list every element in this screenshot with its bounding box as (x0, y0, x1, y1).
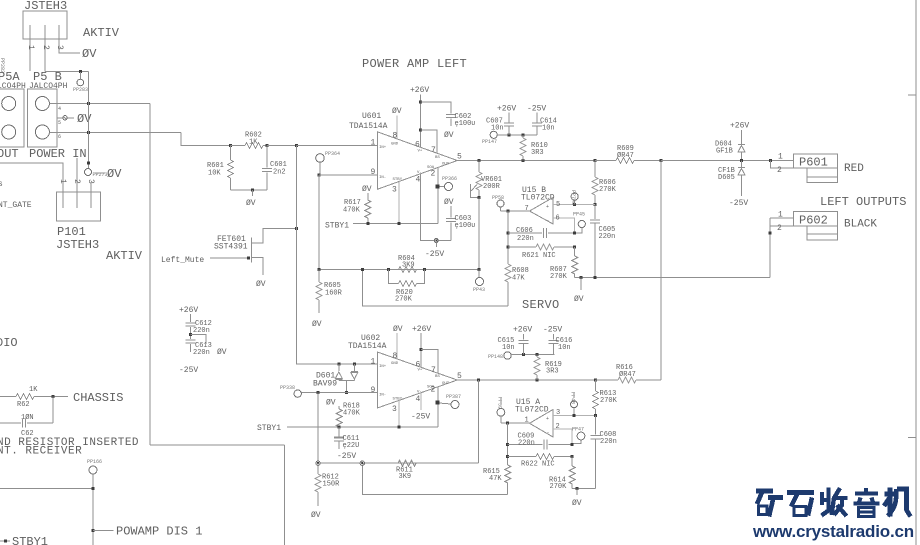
junction pin6 row (87, 131, 90, 134)
wire VR601 to feedback row (478, 198, 480, 270)
capacitor C603 100u (450, 223, 452, 241)
test point PP746 (573, 203, 576, 206)
U602 pin2 wire down (437, 387, 439, 427)
P601 sub body (807, 168, 838, 182)
junction R622 right (571, 455, 574, 458)
svg-text:OUT: OUT (442, 382, 450, 386)
svg-text:PP148: PP148 (488, 354, 503, 360)
svg-text:STBY1: STBY1 (12, 535, 48, 545)
svg-text:10n: 10n (491, 125, 504, 133)
svg-text:AKTIV: AKTIV (106, 249, 143, 263)
svg-text:IN+: IN+ (379, 365, 387, 369)
svg-text:C606: C606 (516, 227, 533, 235)
svg-text:+: + (546, 416, 549, 422)
U15B pin6 wire (553, 218, 575, 233)
U601 pin8 wire (396, 116, 398, 140)
svg-text:200R: 200R (483, 183, 501, 191)
svg-text:5: 5 (556, 201, 560, 209)
capacitor C606 220n (508, 232, 542, 234)
svg-text:TL072CD: TL072CD (515, 406, 549, 415)
svg-text:220n: 220n (517, 235, 534, 243)
connector P601 body (794, 154, 838, 168)
P602 pin2 wire (769, 218, 771, 278)
junction D601 to IN- (345, 391, 348, 394)
wire pin2 to PP283 corner (45, 70, 89, 72)
resistor R613 270K (595, 380, 597, 391)
svg-text:2: 2 (556, 423, 560, 431)
svg-text:5: 5 (58, 120, 61, 126)
wire feedback left vertical (507, 211, 509, 264)
svg-text:6: 6 (416, 361, 421, 370)
wire R601/C601 bottom (231, 189, 267, 191)
svg-text:+26V: +26V (730, 122, 749, 131)
svg-text:ØV: ØV (217, 348, 227, 357)
wire Left_Mute to gate (210, 257, 250, 259)
svg-text:2: 2 (431, 170, 436, 179)
svg-text:2: 2 (777, 224, 782, 233)
resistor R616 0R47 (596, 379, 618, 381)
capacitor C609 220n (508, 444, 543, 446)
junction FET drain on signal line (295, 227, 298, 230)
svg-text:1K: 1K (249, 139, 258, 147)
svg-text:PP746: PP746 (570, 190, 576, 205)
svg-text:BS: BS (435, 375, 440, 379)
svg-text:CHASSIS: CHASSIS (73, 391, 123, 405)
svg-text:JALCO4PH: JALCO4PH (29, 82, 68, 91)
junction signal node (295, 144, 298, 147)
P601 pin2 wire (770, 161, 807, 169)
junction pin4 row (87, 102, 90, 105)
svg-text:2: 2 (41, 45, 50, 50)
resistor R619 3R3 (536, 354, 538, 357)
svg-text:-25V: -25V (527, 105, 546, 114)
wire PP166 down (92, 474, 94, 545)
junction R619 top (536, 353, 539, 356)
svg-text:+26V: +26V (410, 86, 429, 95)
junction BS branch (419, 129, 422, 132)
svg-text:PP338: PP338 (280, 385, 295, 391)
svg-text:IN-: IN- (379, 394, 386, 398)
junction PP166/horizontal (92, 487, 95, 490)
U602 pin8 wire (396, 333, 398, 359)
connector JSTEH3 body (23, 11, 67, 39)
junction pin3 STBY (398, 426, 401, 429)
svg-text:3: 3 (86, 179, 95, 184)
svg-text:TDA1514A: TDA1514A (348, 342, 387, 351)
JSTEH3 pin 3 wire (59, 25, 80, 53)
junction clamp node (740, 159, 743, 162)
junction R621 right (573, 246, 576, 249)
junction bus/R611 branch (477, 379, 480, 382)
svg-text:ØV: ØV (82, 47, 97, 61)
svg-text:PP387: PP387 (446, 394, 461, 400)
svg-text:R622 NIC: R622 NIC (521, 461, 555, 469)
resistor R608 47K (505, 264, 511, 282)
svg-text:47K: 47K (512, 275, 525, 283)
svg-text:150R: 150R (323, 481, 341, 489)
svg-text:BAV99: BAV99 (313, 380, 337, 389)
svg-text:PP48: PP48 (570, 392, 576, 404)
wire mid node to 0V (191, 334, 207, 344)
wire PP364 to IN- node (319, 162, 321, 175)
svg-text:PP45: PP45 (573, 212, 585, 218)
svg-text:1: 1 (371, 139, 376, 148)
FET601 source lead (251, 258, 263, 276)
wire lower output to node (660, 161, 662, 381)
wire BS jumper pin7 (421, 130, 437, 153)
wire bottom route down (284, 445, 286, 545)
svg-text:-25V: -25V (729, 199, 748, 208)
junction IN- left (317, 391, 320, 394)
svg-text:220n: 220n (600, 438, 617, 446)
U602 pin4 wire (420, 393, 422, 410)
junction on pin2 wire (79, 70, 82, 73)
wire -25V stub (435, 243, 437, 248)
svg-text:D605: D605 (718, 174, 735, 182)
svg-text:220n: 220n (193, 349, 210, 357)
junction C605 bottom (594, 276, 597, 279)
U15A pin3 wire (553, 414, 596, 416)
resistor R614 270K (571, 457, 573, 467)
svg-text:R62: R62 (17, 401, 30, 409)
resistor R602 1K (231, 145, 245, 147)
svg-text:270K: 270K (600, 397, 618, 405)
junction R620 right (423, 268, 426, 271)
wire +26V to pin6 (420, 333, 422, 368)
svg-text:V-: V- (417, 171, 422, 175)
junction VR601 wiper (478, 196, 481, 199)
junction R62/C62 (51, 395, 54, 398)
svg-text:NT_GATE: NT_GATE (0, 201, 32, 210)
svg-text:470K: 470K (343, 207, 361, 215)
junction C606 right (573, 232, 576, 235)
svg-text:10K: 10K (208, 170, 221, 178)
svg-text:POWER AMP LEFT: POWER AMP LEFT (362, 57, 467, 71)
svg-text:3: 3 (392, 405, 397, 414)
wire R611 row (318, 462, 479, 464)
svg-text:2n2: 2n2 (273, 169, 286, 177)
junction ground stub (251, 189, 254, 192)
junction 0V stub lower (576, 487, 579, 490)
P101 pin3 wire (90, 183, 92, 208)
svg-text:10n: 10n (558, 344, 571, 352)
svg-text:7: 7 (431, 366, 436, 375)
test point PP273 (88, 165, 90, 169)
wire R614/C608 bottom tie (572, 487, 595, 489)
svg-text:270K: 270K (599, 186, 617, 194)
wire feedback row (319, 269, 479, 271)
junction IN- node (318, 174, 321, 177)
svg-text:-25V: -25V (543, 326, 562, 335)
svg-text:STBY1: STBY1 (325, 222, 349, 231)
svg-text:2: 2 (72, 179, 81, 184)
junction row right (478, 268, 481, 271)
op-amp U601 triangle (377, 132, 457, 190)
junction R613 top (594, 379, 597, 382)
watermark logo shi (787, 493, 814, 516)
connector P5B body (28, 89, 58, 147)
watermark logo yin (854, 488, 880, 517)
op-amp U602 triangle (377, 352, 457, 408)
svg-text:-25V: -25V (337, 452, 356, 461)
svg-text:STBY: STBY (393, 178, 403, 182)
svg-text:8: 8 (393, 352, 398, 361)
junction pin3/STBY1 (398, 222, 401, 225)
junction feedback left lower (506, 422, 509, 425)
svg-text:PP366: PP366 (442, 176, 457, 182)
junction C602 branch (419, 101, 422, 104)
U602 interior pin names (379, 362, 450, 402)
svg-text:1: 1 (26, 45, 35, 50)
svg-text:GND: GND (391, 362, 399, 366)
svg-text:PP147: PP147 (482, 139, 497, 145)
wire output node to D604 (661, 160, 794, 162)
wire IN- to pin9 (319, 174, 377, 176)
test point PP283 (79, 72, 81, 79)
diode D605 GF1B (741, 161, 743, 168)
svg-text:DIO: DIO (0, 336, 18, 350)
net STBY1 bottom left (0, 540, 10, 542)
svg-text:+: + (546, 204, 549, 210)
capacitor C611 22u (338, 427, 340, 437)
junction R621 left (507, 246, 510, 249)
U601 pin3 wire (398, 182, 400, 224)
svg-text:GND: GND (391, 143, 399, 147)
capacitor C602 100u (421, 102, 452, 114)
junction C609 right (571, 443, 574, 446)
svg-text:PP282: PP282 (0, 58, 5, 73)
connector P5A body (0, 89, 24, 147)
test point PP48 (571, 401, 578, 408)
svg-text:www.crystalradio.cn: www.crystalradio.cn (752, 522, 914, 541)
test point PP387 (435, 401, 439, 405)
junction R601 top (229, 144, 232, 147)
wire bus branch down to R611 row (478, 380, 480, 463)
svg-text:ȩ22U: ȩ22U (343, 442, 360, 450)
sheet border right (915, 0, 917, 545)
svg-text:2: 2 (777, 166, 782, 175)
junction VR601 (478, 159, 481, 162)
wire POWAMP DIS stub (93, 530, 114, 532)
junction POWAMP DIS stub (92, 529, 95, 532)
wire to node x297 (267, 145, 297, 147)
svg-text:TDA1514A: TDA1514A (349, 122, 388, 131)
svg-text:-25V: -25V (425, 250, 444, 259)
svg-text:3: 3 (55, 45, 64, 50)
wire feedback return lower (362, 463, 507, 494)
wire supply cap row lower (517, 353, 554, 355)
svg-text:470K: 470K (343, 410, 361, 418)
svg-text:3: 3 (556, 409, 560, 417)
capacitor C608 220n (595, 415, 597, 434)
wire horizontal to PP166 node (0, 488, 93, 490)
U15B input polarity (546, 204, 550, 224)
junction PP48 node (573, 414, 576, 417)
resistor R611 3K9 (398, 460, 416, 466)
svg-text:1: 1 (58, 179, 67, 184)
svg-text:1: 1 (371, 358, 376, 367)
junction R619 bottom (536, 379, 539, 382)
resistor R604 3K9 (399, 267, 417, 273)
op-amp U15A triangle (530, 410, 554, 438)
svg-text:3: 3 (392, 186, 397, 195)
junction output node (659, 159, 662, 162)
svg-text:ØV: ØV (444, 131, 454, 140)
U601 pin2 wire down (437, 167, 439, 223)
svg-text:ØV: ØV (246, 199, 256, 208)
svg-text:JSTEH3: JSTEH3 (56, 238, 99, 252)
svg-text:NT. RECEIVER: NT. RECEIVER (0, 446, 82, 458)
resistor R606 270K (594, 161, 596, 178)
svg-text:AKTIV: AKTIV (83, 26, 120, 40)
svg-text:4: 4 (416, 176, 421, 185)
wire row1 corner down long vertical (149, 104, 151, 446)
watermark logo ji (884, 488, 911, 517)
FET601 gate bar (250, 238, 252, 263)
svg-text:10n: 10n (502, 344, 515, 352)
svg-text:ØV: ØV (326, 399, 336, 408)
svg-text:PP59: PP59 (497, 397, 503, 409)
wire servo 0V rail (575, 277, 770, 279)
svg-text:270K: 270K (550, 483, 568, 491)
wire supply cap row (497, 134, 537, 136)
border tick top (908, 94, 916, 96)
svg-text:SERVO: SERVO (522, 298, 560, 312)
svg-text:220n: 220n (599, 233, 616, 241)
svg-text:+26V: +26V (179, 306, 198, 315)
wire node to U601 pin1 (297, 145, 378, 147)
watermark logo shou (822, 488, 848, 517)
wire signal vertical to U602 (297, 146, 378, 365)
wire chassis branch down (52, 397, 54, 424)
resistor R601 10K (230, 146, 232, 161)
svg-text:ØV: ØV (393, 325, 403, 334)
U601 pin4 route to -25V rail (421, 174, 452, 241)
svg-text:STBY1: STBY1 (257, 424, 281, 433)
junction C612/C613 (189, 333, 192, 336)
svg-text:ØV: ØV (256, 280, 266, 289)
svg-text:6: 6 (58, 134, 61, 140)
svg-text:IN-: IN- (379, 176, 386, 180)
svg-text:47K: 47K (489, 475, 502, 483)
U15A pin2 wire (553, 429, 572, 444)
resistor R607 270K (574, 247, 576, 256)
svg-text:ØV: ØV (107, 167, 122, 181)
resistor R612 150R (317, 463, 319, 474)
junction 0V stub (579, 276, 582, 279)
svg-text:160R: 160R (325, 290, 343, 298)
svg-text:220n: 220n (518, 440, 535, 448)
junction feedback left (507, 210, 510, 213)
svg-text:P601: P601 (799, 156, 828, 170)
svg-text:PP166: PP166 (87, 459, 102, 465)
svg-text:ØV: ØV (444, 198, 454, 207)
test point PP364 (316, 154, 325, 163)
svg-text:+26V: +26V (513, 326, 532, 335)
capacitor C613 220n (186, 340, 196, 343)
U15A input polarity (546, 416, 550, 436)
svg-text:1ØN: 1ØN (21, 413, 34, 422)
svg-text:PP43: PP43 (473, 287, 485, 293)
svg-text:ȩ100ʋ: ȩ100ʋ (455, 120, 476, 128)
svg-text:8: 8 (393, 132, 398, 141)
svg-text:P101: P101 (57, 225, 86, 239)
junction R611 row left (316, 461, 320, 465)
svg-text:270K: 270K (395, 296, 413, 304)
junction C601 top (266, 144, 269, 147)
svg-text:LCO4PH: LCO4PH (0, 82, 26, 91)
svg-text:ØR47: ØR47 (617, 151, 634, 160)
svg-text:POWER IN: POWER IN (29, 147, 87, 161)
svg-text:1K: 1K (29, 386, 38, 394)
test point PP366 (435, 185, 439, 189)
wire row pin4 (49, 103, 150, 105)
junction feedback tie lower (360, 461, 364, 465)
svg-text:3K9: 3K9 (402, 262, 415, 270)
junction R606 (594, 159, 597, 162)
svg-text:RED: RED (844, 163, 864, 175)
junction R617/STBY1 (366, 222, 369, 225)
svg-text:BLACK: BLACK (844, 219, 877, 231)
resistor R615 47K (505, 465, 511, 483)
wire input step (181, 133, 231, 146)
capacitor C62 10N (0, 422, 21, 424)
P602 pin1 wire (770, 217, 794, 219)
svg-text:3R3: 3R3 (531, 149, 544, 157)
P101 pin numbers (58, 179, 95, 184)
wire U15B output (501, 210, 530, 212)
svg-text:+26V: +26V (497, 105, 516, 114)
FET601 drain lead (251, 228, 296, 243)
wire vertical PP283 to PP273 (88, 71, 90, 163)
svg-text:-25V: -25V (179, 366, 198, 375)
junction C609 left (506, 443, 509, 446)
svg-text:+26V: +26V (412, 325, 431, 334)
junction P602 (769, 232, 772, 235)
wire +26V to pin6 (420, 95, 422, 148)
svg-text:PP364: PP364 (325, 151, 340, 157)
wire U15A output (501, 422, 530, 424)
svg-text:9: 9 (371, 386, 376, 395)
svg-text:ØV: ØV (311, 511, 321, 520)
svg-text:6: 6 (415, 141, 420, 150)
svg-text:4: 4 (416, 395, 421, 404)
connector P101 body (57, 192, 101, 221)
junction P601 tie (769, 159, 772, 162)
JSTEH3 pin numbers 1 2 3 (26, 45, 64, 50)
resistor R609 0R47 (595, 160, 616, 162)
resistor R621 NIC (508, 246, 536, 248)
svg-text:7: 7 (525, 205, 529, 213)
svg-text:ØV: ØV (572, 499, 582, 508)
wire servo return to feedback row (362, 270, 508, 307)
border tick bottom (908, 437, 916, 439)
junction C607 (508, 133, 511, 136)
svg-text:ȩ100ʋ: ȩ100ʋ (455, 222, 476, 230)
wire row pin6 (49, 132, 181, 134)
capacitor C601 2n2 (266, 146, 268, 168)
resistor R62 1K (0, 396, 16, 398)
junction -25V node (434, 239, 438, 243)
svg-text:STBY: STBY (393, 398, 403, 402)
svg-text:ØR47: ØR47 (619, 370, 636, 379)
svg-text:POWAMP DIS 1: POWAMP DIS 1 (116, 525, 202, 539)
svg-text:4: 4 (58, 106, 61, 112)
wire IN- row (307, 392, 377, 394)
junction C606 left (507, 232, 510, 235)
JSTEH3 pin 1 wire (29, 25, 31, 71)
resistor R605 160R (318, 270, 320, 283)
